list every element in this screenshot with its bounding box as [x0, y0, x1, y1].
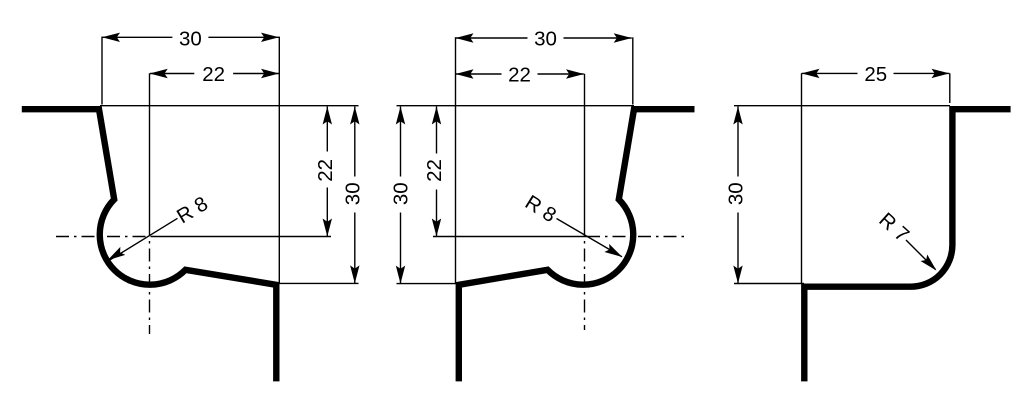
svg-text:R 8: R 8 — [521, 191, 560, 227]
svg-text:25: 25 — [864, 63, 887, 86]
svg-text:22: 22 — [314, 159, 337, 182]
svg-text:30: 30 — [534, 28, 557, 51]
svg-text:30: 30 — [725, 182, 748, 205]
svg-text:30: 30 — [389, 182, 412, 205]
svg-text:R 8: R 8 — [173, 192, 212, 228]
svg-text:22: 22 — [202, 63, 225, 86]
svg-text:22: 22 — [508, 63, 531, 86]
svg-text:30: 30 — [179, 28, 202, 51]
svg-text:30: 30 — [342, 182, 365, 205]
svg-text:22: 22 — [423, 159, 446, 182]
